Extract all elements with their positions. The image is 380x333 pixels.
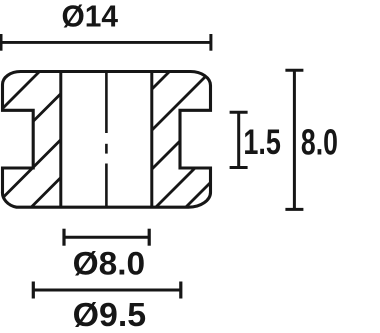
svg-text:1.5: 1.5 xyxy=(243,122,281,162)
tick left of Ø14 line xyxy=(0,34,3,51)
centre line (dash-dot) xyxy=(105,72,108,134)
tick right of Ø9.5 line xyxy=(179,282,182,299)
hatch line L3 xyxy=(0,0,201,220)
tick left of Ø9.5 line xyxy=(32,282,35,299)
tick bottom of 1.5 line xyxy=(230,166,248,169)
tick left of Ø8.0 line xyxy=(62,229,65,246)
svg-text:8.0: 8.0 xyxy=(301,122,338,163)
dimension line 1.5 xyxy=(237,112,240,167)
hatch line R5 xyxy=(173,0,380,220)
hatching right region xyxy=(21,0,380,220)
hatch line L1 xyxy=(0,0,111,220)
left bore edge xyxy=(59,72,62,208)
tick top of 1.5 line xyxy=(230,111,248,114)
hatch line R4 xyxy=(143,0,363,220)
hatch line R2 xyxy=(62,0,282,220)
hatching left region xyxy=(0,0,238,220)
hatch line R1 xyxy=(21,0,241,220)
hatch line L4 xyxy=(18,0,238,220)
svg-text:Ø9.5: Ø9.5 xyxy=(73,296,147,333)
tick right of Ø8.0 line xyxy=(148,229,151,246)
dimension line 8.0 xyxy=(293,70,296,209)
svg-text:Ø14: Ø14 xyxy=(62,0,119,34)
dimension line Ø8.0 xyxy=(64,236,149,239)
tick bottom of 8.0 line xyxy=(285,208,303,211)
tick top of 8.0 line xyxy=(285,69,303,72)
hatch line R3 xyxy=(101,0,321,220)
grommet body outline xyxy=(2,72,210,208)
right bore edge xyxy=(150,72,153,208)
hatch line L2 xyxy=(0,0,155,220)
dimension line Ø9.5 xyxy=(33,289,181,292)
dimension line Ø14 xyxy=(1,41,211,44)
svg-text:Ø8.0: Ø8.0 xyxy=(73,245,146,281)
tick right of Ø14 line xyxy=(209,34,212,51)
